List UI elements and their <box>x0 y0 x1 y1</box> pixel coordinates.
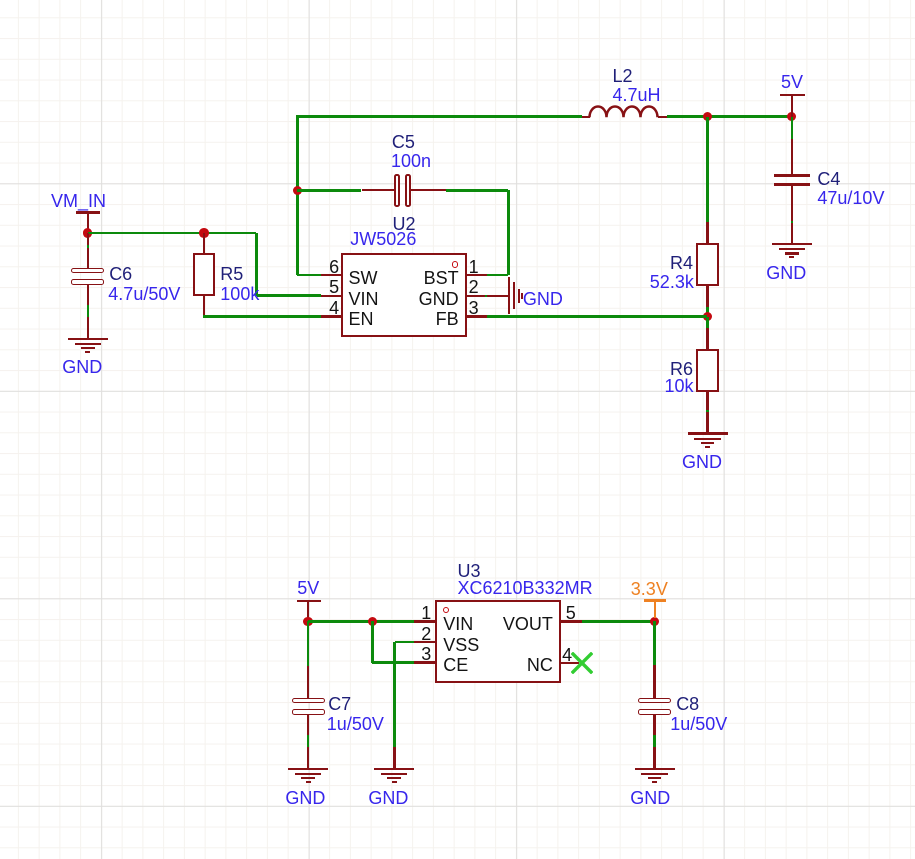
ground U2 pin2 <box>0 0 915 1</box>
wire 5V rail to C4 <box>791 117 794 139</box>
resistor R6 bottom pin <box>706 392 708 412</box>
net label GND (C7) <box>285 789 325 807</box>
net label GND (C6) <box>62 358 102 376</box>
capacitor C5 left pin <box>362 189 395 191</box>
wire VM_IN rail <box>88 232 257 235</box>
wire L2 to 5V <box>667 115 792 118</box>
label U3 <box>458 562 481 580</box>
power flag 3.3V bar <box>644 599 665 602</box>
label C7 <box>328 695 351 713</box>
ground C7 <box>0 0 915 1</box>
capacitor C4 top pin <box>791 139 793 175</box>
ground C6 <box>0 0 915 1</box>
resistor R4 bottom pin <box>706 286 708 308</box>
resistor R5 bottom pin <box>203 296 205 317</box>
wire down to C7 <box>307 621 310 665</box>
net label GND (C8) <box>630 789 670 807</box>
U2 pin 3 FB stub <box>467 315 487 317</box>
wire down to U2 pin6 SW <box>296 117 299 275</box>
pin name EN <box>349 310 374 328</box>
resistor R6 top pin <box>706 328 708 349</box>
U2 pin 5 VIN stub <box>321 295 341 297</box>
pin number 2 <box>469 278 479 296</box>
pin number 4 (U3) <box>562 646 572 664</box>
value JW5026 <box>350 230 416 248</box>
ground stem C8 <box>653 747 655 768</box>
wire to BST pin <box>487 274 508 277</box>
pin name VSS <box>443 636 479 654</box>
resistor R5 top pin <box>203 233 205 253</box>
value XC6210B332MR <box>458 579 593 597</box>
U2 pin 4 EN stub <box>321 315 341 317</box>
ground stem R6 <box>706 412 708 433</box>
ground stem C6 <box>87 317 89 338</box>
capacitor C4 bottom pin <box>791 186 793 243</box>
net label GND (R6) <box>682 453 722 471</box>
wire C5 right <box>446 189 509 192</box>
U2 pin 1 BST stub <box>467 274 487 276</box>
capacitor C4 <box>774 174 810 177</box>
wire SW rail top left <box>296 115 582 118</box>
capacitor C8 bottom pin <box>653 714 655 735</box>
op-amp U3 body <box>435 600 562 683</box>
ground VSS <box>0 0 915 1</box>
capacitor C5 <box>394 174 400 207</box>
net label 5V (top) <box>781 73 803 91</box>
power flag 5V bar (bottom) <box>297 600 321 603</box>
ground R6 <box>0 0 915 1</box>
capacitor C7 bottom pin <box>307 714 309 735</box>
junction VOUT / C8 <box>650 617 659 626</box>
pin number 1 (U3) <box>421 604 431 622</box>
pin number 1 <box>469 258 479 276</box>
junction output rail / R4 <box>703 112 712 121</box>
power flag 5V stem <box>791 95 793 117</box>
wire to R4 <box>706 117 709 222</box>
junction VM_IN rail / C6 <box>83 228 92 237</box>
label L2 <box>613 67 633 85</box>
label R4 <box>670 254 693 272</box>
ground C4 <box>0 0 915 1</box>
value 1u/50V (C7) <box>327 715 384 733</box>
op-amp U2 body <box>341 253 467 338</box>
capacitor C8 top pin <box>653 665 655 699</box>
net label 5V (bottom) <box>297 579 319 597</box>
capacitor C5 right pin <box>411 189 446 191</box>
net label GND (U2 pin2) <box>523 290 563 308</box>
wire U2 FB to divider <box>487 315 708 318</box>
value 100n <box>391 152 431 170</box>
net label 3.3V <box>631 580 668 598</box>
value 4.7u/50V <box>108 285 180 303</box>
pin name VIN (U3) <box>443 615 473 633</box>
U2 pin 2 GND stub <box>467 295 487 297</box>
resistor R4 top pin <box>706 222 708 243</box>
pin number 5 <box>329 278 339 296</box>
ground stem U2 pin2 <box>487 295 508 297</box>
pin name CE <box>443 656 468 674</box>
net label GND (VSS) <box>368 789 408 807</box>
netport VM_IN bar <box>76 211 100 214</box>
label C6 <box>109 265 132 283</box>
wire to U2 pin6 <box>297 274 320 277</box>
wire VOUT to 3.3V <box>582 620 655 623</box>
capacitor C6 <box>71 268 104 273</box>
capacitor C6 top pin <box>87 233 89 269</box>
power flag 3.3V stem <box>654 600 656 618</box>
capacitor C7 top pin <box>307 666 309 699</box>
inductor L2 <box>588 103 660 120</box>
label C8 <box>676 695 699 713</box>
pin number 3 <box>469 299 479 317</box>
capacitor C7 <box>292 698 325 703</box>
wire 5V to U3 VIN <box>308 620 414 623</box>
pin name FB <box>436 310 459 328</box>
capacitor C8 <box>638 698 671 703</box>
value 47u/10V <box>817 189 884 207</box>
pin name VIN <box>349 290 379 308</box>
label R6 <box>670 360 693 378</box>
resistor R4 <box>696 243 719 286</box>
resistor R6 <box>696 349 719 392</box>
junction 5V rail / C7 <box>303 617 312 626</box>
U3 pin 1 VIN stub <box>414 620 435 622</box>
U3 pin 5 VOUT stub <box>561 620 582 622</box>
junction CE branch <box>368 617 377 626</box>
label C4 <box>817 170 840 188</box>
pin number 3 (U3) <box>421 645 431 663</box>
no-connect cross X <box>571 652 593 674</box>
resistor R5 <box>193 253 216 296</box>
ground C8 <box>0 0 915 1</box>
pin number 2 (U3) <box>421 625 431 643</box>
inductor L2 right lead <box>658 116 667 118</box>
wire C6 to ground <box>87 305 90 317</box>
power flag 5V stem (bottom) <box>307 601 309 622</box>
U3 pin 2 VSS stub <box>414 641 435 643</box>
label U2 <box>393 215 416 233</box>
wire rail corner down to VIN <box>255 233 258 296</box>
wire C5 left <box>297 189 361 192</box>
wire C7 to ground <box>307 735 310 747</box>
ground stem C7 <box>307 747 309 768</box>
wire R5 to U2 pin4 EN <box>203 315 321 318</box>
wire to U3 pin3 CE <box>372 661 414 664</box>
power flag 5V bar <box>780 94 804 97</box>
net label VM_IN <box>51 192 106 210</box>
value 1u/50V (C8) <box>670 715 727 733</box>
wire FB node to R6 <box>706 317 709 329</box>
wire VSS down to ground <box>393 642 396 747</box>
pin name SW <box>349 269 378 287</box>
label R5 <box>220 265 243 283</box>
wire down to C8 <box>653 621 656 664</box>
pin name GND <box>419 290 459 308</box>
label C5 <box>392 133 415 151</box>
wire down to U2 pin1 BST <box>507 190 510 275</box>
U3 pin decoration circle <box>443 607 449 613</box>
value 10k <box>665 377 694 395</box>
U3 pin 3 CE stub <box>414 661 435 663</box>
capacitor C6 bottom pin <box>87 285 89 305</box>
net label GND (C4) <box>766 264 806 282</box>
pin name VOUT <box>503 615 553 633</box>
wire to U2 pin5 VIN <box>257 294 321 297</box>
inductor L2 left lead <box>582 116 591 118</box>
U2 pin decoration circle <box>452 261 459 268</box>
junction FB node <box>703 312 712 321</box>
pin name BST <box>424 269 459 287</box>
value 4.7uH <box>613 86 661 104</box>
wire C8 to ground <box>653 735 656 747</box>
junction R5 top <box>199 228 208 237</box>
pin number 6 <box>329 258 339 276</box>
U2 pin 6 SW stub <box>321 274 341 276</box>
value 100k <box>220 285 259 303</box>
ground stem VSS <box>393 747 395 768</box>
junction C5 left <box>293 186 302 195</box>
pin number 5 (U3) <box>566 604 576 622</box>
wire R4 to FB node <box>706 307 709 316</box>
pin number 4 <box>329 299 339 317</box>
wire U3 pin2 VSS <box>395 641 415 644</box>
pin name NC <box>527 656 553 674</box>
U3 pin 4 NC stub <box>561 662 579 664</box>
wire CE branch down <box>371 621 374 662</box>
netport VM_IN stem <box>87 212 89 233</box>
junction output rail / C4 <box>787 112 796 121</box>
value 52.3k <box>650 273 694 291</box>
